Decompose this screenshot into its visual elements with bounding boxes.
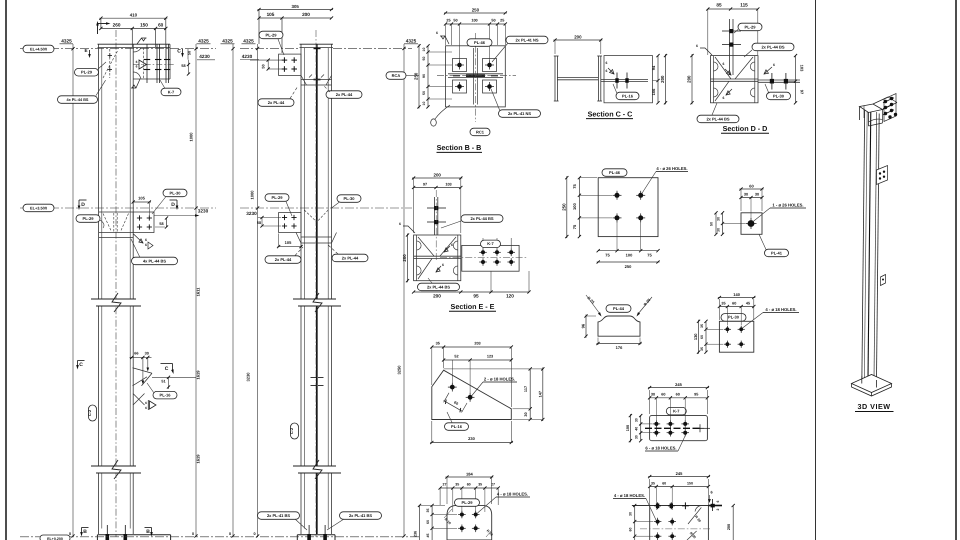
svg-text:60: 60 xyxy=(629,528,633,532)
svg-text:50: 50 xyxy=(262,64,266,68)
svg-text:0: 0 xyxy=(229,532,231,536)
section cut marker B left at base xyxy=(80,528,88,537)
column C-2 elevation 1 shaft xyxy=(99,44,134,534)
svg-text:3230: 3230 xyxy=(198,209,209,214)
label 4230 left of column 2 top xyxy=(240,54,259,60)
svg-text:97: 97 xyxy=(800,90,805,95)
bottom right plate dims 35 60 150 xyxy=(648,479,710,510)
column 2 haunch transition xyxy=(301,75,332,86)
label 4325 right of column 1 xyxy=(197,38,211,43)
svg-text:200: 200 xyxy=(574,35,582,40)
section B-B column cross-section xyxy=(446,46,506,107)
plate PL-16 detail shape xyxy=(432,370,512,419)
label PL-30 section D-D xyxy=(765,84,791,100)
svg-text:PL-16: PL-16 xyxy=(622,93,634,98)
svg-text:25: 25 xyxy=(500,19,504,23)
label PL-44 detail xyxy=(606,305,631,313)
svg-text:PL-46: PL-46 xyxy=(609,170,621,175)
svg-text:200: 200 xyxy=(402,254,407,262)
plate PL-30 dims 35 60 45 xyxy=(718,299,756,325)
note 4 - dia 18 holes bottom left xyxy=(478,492,531,514)
svg-text:6: 6 xyxy=(723,62,725,66)
section E-E channel box xyxy=(414,235,461,281)
svg-text:PL-29: PL-29 xyxy=(745,24,757,29)
svg-text:100: 100 xyxy=(626,425,630,431)
svg-text:PL-41: PL-41 xyxy=(771,250,783,255)
plate PL-29 bottom detail bolts xyxy=(458,511,479,532)
column 2 cap bolt cross xyxy=(314,45,321,53)
plate PL-46 detail xyxy=(598,178,658,237)
bottom right dimension 200 xyxy=(710,504,735,540)
plate PL-41 top dimension 60 xyxy=(739,184,763,212)
section E-E title xyxy=(449,302,496,311)
bottom right centerline dashed xyxy=(640,528,712,530)
svg-text:123: 123 xyxy=(487,355,493,359)
label PL-46 section B-B xyxy=(467,39,492,47)
label 4325 left of column 1 xyxy=(60,38,74,43)
label PL-29 at column 2 mid xyxy=(265,194,292,216)
svg-text:0: 0 xyxy=(253,532,255,536)
bottom right chamfer R 30 notes xyxy=(687,505,702,540)
svg-text:150: 150 xyxy=(140,22,148,27)
svg-text:2x PL-41 NS: 2x PL-41 NS xyxy=(508,111,531,116)
label PL-46 detail xyxy=(602,169,627,177)
svg-text:95: 95 xyxy=(694,393,698,397)
note 1 - dia 26 holes xyxy=(753,203,807,223)
svg-text:96: 96 xyxy=(581,323,586,328)
plate PL-29 dims 27 35 60 35 27 xyxy=(439,477,500,512)
svg-text:60: 60 xyxy=(749,184,754,189)
svg-text:90: 90 xyxy=(422,74,426,78)
plate PL-30 overall left dimension 130 xyxy=(693,320,700,354)
svg-text:K-7: K-7 xyxy=(168,89,175,94)
section E-E weld flags xyxy=(399,222,453,272)
svg-text:2x PL-41 NS: 2x PL-41 NS xyxy=(515,37,538,42)
section B-B top dimensions 25 50 100 50 25 xyxy=(444,19,507,62)
svg-text:30: 30 xyxy=(524,412,528,416)
column 1 top cap plate xyxy=(98,44,171,47)
svg-text:100: 100 xyxy=(572,202,577,209)
svg-text:Section B - B: Section B - B xyxy=(437,143,482,152)
svg-text:117: 117 xyxy=(524,386,528,392)
section cut marker D left of column 1 xyxy=(78,200,87,210)
bottom right plate bolts row on edge xyxy=(654,502,689,509)
svg-text:D: D xyxy=(81,202,85,208)
svg-text:6: 6 xyxy=(606,69,608,73)
section E-E bottom dimensions 200 95 120 xyxy=(412,271,531,299)
section C-C gusset box xyxy=(601,56,653,103)
svg-text:6: 6 xyxy=(145,406,147,410)
column 2 mid connection level line xyxy=(240,207,412,209)
column 1 break symbol upper xyxy=(91,293,141,312)
section B-B centerlines xyxy=(437,33,516,122)
section cut marker C at column 1 top xyxy=(177,49,184,58)
label RCA xyxy=(386,72,419,80)
svg-text:PL-16: PL-16 xyxy=(160,393,172,398)
dimensions 105 200 above column 2 xyxy=(257,12,333,53)
weld symbol below column 1 bracket xyxy=(131,79,140,88)
column 2 haunch bolt cross xyxy=(314,76,321,84)
label 2x PL-44 left at column 2 mid xyxy=(265,247,303,263)
svg-text:103: 103 xyxy=(445,183,451,187)
label 4325 left of column 2 top xyxy=(242,38,256,43)
dimension chain 1000 left of column 2 xyxy=(246,44,260,538)
svg-text:6: 6 xyxy=(136,65,138,69)
plate PL-46 overall left dimension 250 xyxy=(561,176,568,238)
svg-text:35: 35 xyxy=(426,509,430,513)
svg-text:4 - ø 18 HOLES.: 4 - ø 18 HOLES. xyxy=(497,492,528,497)
svg-text:1619: 1619 xyxy=(196,454,201,464)
svg-text:1000: 1000 xyxy=(250,190,255,200)
svg-text:4325: 4325 xyxy=(61,38,72,43)
column 2 mid haunch xyxy=(296,210,337,243)
svg-text:RCA: RCA xyxy=(392,73,401,78)
plate PL-30 detail xyxy=(719,321,753,352)
svg-text:Section D - D: Section D - D xyxy=(723,124,768,133)
svg-text:6: 6 xyxy=(145,238,147,242)
label PL-29 at column 1 top xyxy=(75,62,107,76)
section B-B overall left dimension 250 xyxy=(414,44,421,108)
svg-text:4 - ø 18 HOLES.: 4 - ø 18 HOLES. xyxy=(614,493,645,498)
section B-B corner angle plates xyxy=(453,59,497,94)
svg-text:51: 51 xyxy=(161,380,165,384)
section E-E vertical plate with bolts xyxy=(427,190,446,262)
section cut marker C right mid column 1 xyxy=(161,364,174,375)
label 2x PL-44 BS section E-E bottom xyxy=(418,278,460,291)
level label EL+4.500 xyxy=(23,45,54,53)
svg-text:PL-29: PL-29 xyxy=(272,195,284,200)
svg-text:50: 50 xyxy=(710,222,714,226)
section B-B left dimension chain xyxy=(422,44,452,108)
svg-text:35: 35 xyxy=(455,483,459,487)
dimension 66 30 at column 1 gusset xyxy=(130,352,152,385)
svg-text:60: 60 xyxy=(661,393,665,397)
section C-C right overall dimension 200 xyxy=(660,54,667,104)
plate PL-30 left dimension chain xyxy=(700,320,723,354)
svg-text:1000: 1000 xyxy=(189,132,194,142)
label PL-16 section C-C xyxy=(613,84,639,100)
svg-text:PL-29: PL-29 xyxy=(266,32,278,37)
label PL-29 bottom detail xyxy=(455,499,480,507)
svg-text:60: 60 xyxy=(732,302,736,306)
dimension chain left of column 1 xyxy=(71,44,74,538)
plate PL-16 right dimensions 117 30 xyxy=(444,367,543,421)
section D-D weld flags xyxy=(696,44,775,100)
label 3230 left of column 2 mid xyxy=(246,211,281,228)
svg-text:200: 200 xyxy=(660,75,665,83)
3D view top open box xyxy=(860,104,883,126)
svg-text:2x PL-41 BS: 2x PL-41 BS xyxy=(267,513,290,518)
3D view base plate xyxy=(852,375,892,397)
svg-text:2 - ø 18 HOLES.: 2 - ø 18 HOLES. xyxy=(484,376,515,381)
label 2x PL-41 BS left at column 2 base xyxy=(258,512,308,530)
label 4230 right of column 1 xyxy=(197,54,215,60)
label 2x PL-44 BS section D-D bottom xyxy=(697,103,739,123)
plate PL-46 bolt holes xyxy=(613,191,646,223)
column 1 gusset plate xyxy=(133,368,153,405)
plate PL-46 bottom dimension chain xyxy=(597,222,660,258)
datum north arrow xyxy=(96,21,110,34)
bottom right left dimension chain xyxy=(629,504,653,540)
svg-text:230: 230 xyxy=(468,436,475,441)
small dim 58 at column 1 mid xyxy=(155,216,168,228)
svg-text:4230: 4230 xyxy=(242,54,253,59)
grid level line EL+3.500 xyxy=(20,207,216,209)
plate PL-44 left dimension 96 xyxy=(581,314,597,337)
svg-text:1611: 1611 xyxy=(196,287,201,296)
svg-text:115: 115 xyxy=(740,3,748,8)
plate PL-29 bottom detail shape xyxy=(447,505,492,540)
svg-text:6 - ø 18 HOLES.: 6 - ø 18 HOLES. xyxy=(645,446,676,451)
section cut marker C left mid column 1 xyxy=(76,361,84,370)
label 2x PL-44 BS section D-D top xyxy=(744,43,794,57)
svg-text:2x PL-44: 2x PL-44 xyxy=(275,257,292,262)
section C-C bolts on plate xyxy=(615,73,628,89)
svg-text:4x PL-44 BS: 4x PL-44 BS xyxy=(143,258,166,263)
dimension 105 below column 2 mid bracket xyxy=(277,234,303,249)
svg-text:PL-29: PL-29 xyxy=(462,500,474,505)
svg-text:305: 305 xyxy=(292,4,300,9)
dimension chain 4325 right of column 2 xyxy=(397,38,419,537)
svg-text:184: 184 xyxy=(466,472,473,477)
svg-text:1 - ø 26 HOLES.: 1 - ø 26 HOLES. xyxy=(772,203,803,208)
svg-text:4 - ø 18 HOLES.: 4 - ø 18 HOLES. xyxy=(765,307,796,312)
svg-text:30: 30 xyxy=(755,193,759,197)
svg-text:66: 66 xyxy=(134,352,138,356)
svg-text:250: 250 xyxy=(472,8,480,13)
svg-text:6: 6 xyxy=(399,222,401,226)
label 2x PL-44 left below column 2 haunch xyxy=(258,86,298,106)
svg-text:245: 245 xyxy=(676,471,683,476)
column 2 top left bracket with bolts xyxy=(250,54,301,75)
section D-D channel section xyxy=(711,56,759,103)
column 1 top plate PL-29 hidden lines xyxy=(103,49,118,78)
weld symbols below column 1 mid bracket xyxy=(134,234,154,249)
svg-text:60: 60 xyxy=(158,22,164,27)
note R 10 corner radius right xyxy=(486,529,494,537)
plate K-7 left dimension chain xyxy=(635,414,652,442)
svg-text:260: 260 xyxy=(113,22,121,27)
plate PL-30 top dimension 140 xyxy=(718,292,756,299)
svg-text:60: 60 xyxy=(676,393,680,397)
svg-text:75: 75 xyxy=(572,224,577,229)
section E-E top dimension 200 xyxy=(412,173,462,180)
svg-text:35: 35 xyxy=(700,347,704,351)
svg-text:35: 35 xyxy=(436,342,440,346)
svg-text:1619: 1619 xyxy=(196,370,201,380)
column 2 centerline xyxy=(315,30,317,537)
label 4x PL-44 BS at column 1 mid xyxy=(131,239,178,265)
svg-text:6: 6 xyxy=(710,491,712,495)
svg-text:2x PL-41 BS: 2x PL-41 BS xyxy=(349,513,372,518)
section E-E dimensions 97 103 xyxy=(412,178,462,233)
section D-D title xyxy=(721,124,769,133)
plate PL-29 bottom left dimension chain xyxy=(426,504,457,540)
svg-text:4 - ø 26 HOLES.: 4 - ø 26 HOLES. xyxy=(656,166,687,171)
section cut marker D right of column 1 xyxy=(170,200,179,210)
svg-text:B: B xyxy=(83,529,87,535)
svg-text:3D VIEW: 3D VIEW xyxy=(857,402,890,411)
svg-text:10: 10 xyxy=(422,102,426,106)
svg-text:30: 30 xyxy=(629,512,633,516)
svg-text:25: 25 xyxy=(446,19,450,23)
svg-text:PL-44: PL-44 xyxy=(613,306,625,311)
svg-text:2x PL-44 BS: 2x PL-44 BS xyxy=(706,116,729,121)
section C-C title xyxy=(586,110,633,119)
note 4 - dia 26 holes xyxy=(642,166,689,194)
svg-text:30: 30 xyxy=(717,217,721,221)
svg-text:C-2: C-2 xyxy=(87,409,92,416)
level label EL+3.500 xyxy=(23,204,54,212)
plate PL-41 left dims 50 30 xyxy=(710,211,746,236)
svg-text:50: 50 xyxy=(422,57,426,61)
label PL-41 detail xyxy=(759,234,789,256)
small dims 50 58 right of column 1 top xyxy=(181,49,191,76)
svg-text:2x PL-44: 2x PL-44 xyxy=(342,255,359,260)
plate K-7 bolt holes xyxy=(653,420,689,436)
drawing sheet left border xyxy=(5,0,7,540)
plate PL-16 bolt holes xyxy=(448,383,475,402)
label PL-30 detail xyxy=(721,314,746,322)
svg-text:3230: 3230 xyxy=(246,211,257,216)
svg-text:3230: 3230 xyxy=(246,372,251,382)
svg-text:58: 58 xyxy=(181,64,185,68)
label PL-29 at column 1 mid xyxy=(76,215,104,228)
column 1 centerline xyxy=(115,30,117,537)
dimension 51 at gusset xyxy=(161,376,170,389)
section C-C H-beam xyxy=(554,56,602,101)
section C-C right dimensions 94 106 xyxy=(602,54,660,104)
svg-text:6: 6 xyxy=(606,61,608,65)
column 2 base plate and anchor bolts xyxy=(297,525,335,540)
svg-text:200: 200 xyxy=(433,294,441,299)
label 2x PL-41 NS top xyxy=(492,36,548,62)
plate PL-16 hole spacing dimension 60 xyxy=(444,393,467,413)
dimension chain 1000 right of column 1 xyxy=(189,44,201,538)
svg-text:200: 200 xyxy=(434,173,442,178)
plate PL-29 bottom overall dimension 236 xyxy=(414,504,446,540)
level label at base cut xyxy=(40,535,70,540)
svg-text:85: 85 xyxy=(716,3,722,8)
grid level line EL+4.500 xyxy=(20,48,216,50)
svg-text:4x PL-44 BS: 4x PL-44 BS xyxy=(67,98,89,102)
column 2 top cap plate xyxy=(240,44,412,48)
dimensions 260 150 60 above column 1 xyxy=(99,22,167,47)
svg-text:250: 250 xyxy=(561,203,566,211)
column 1 mid bracket plate with bolts xyxy=(133,212,154,233)
svg-text:100: 100 xyxy=(626,253,633,258)
svg-text:60: 60 xyxy=(426,520,430,524)
svg-text:K-7: K-7 xyxy=(487,241,494,246)
svg-text:3250: 3250 xyxy=(397,365,402,375)
svg-text:6: 6 xyxy=(451,243,453,247)
svg-text:200: 200 xyxy=(727,524,731,530)
svg-text:45: 45 xyxy=(746,302,750,306)
svg-text:35: 35 xyxy=(700,324,704,328)
svg-text:50: 50 xyxy=(491,19,495,23)
section B-B title xyxy=(437,143,483,152)
svg-text:103: 103 xyxy=(800,65,805,72)
section E-E centerline xyxy=(440,256,528,258)
svg-text:203: 203 xyxy=(474,342,480,346)
column 1 mark label C-2 xyxy=(87,405,97,421)
svg-text:140: 140 xyxy=(733,292,740,297)
svg-text:250: 250 xyxy=(625,264,632,269)
svg-text:PL-30: PL-30 xyxy=(773,93,785,98)
svg-text:27: 27 xyxy=(443,483,447,487)
dimension 305 above column 2 xyxy=(257,4,333,44)
svg-text:2x PL-44 BS: 2x PL-44 BS xyxy=(427,284,450,289)
svg-text:52: 52 xyxy=(454,355,458,359)
svg-text:30: 30 xyxy=(744,193,748,197)
svg-text:97: 97 xyxy=(423,183,427,187)
svg-text:PL-46: PL-46 xyxy=(474,40,486,45)
bottom right plate bolt holes xyxy=(654,518,676,540)
section D-D vertical plate PL-29 edge xyxy=(722,19,741,75)
svg-text:40: 40 xyxy=(635,427,639,431)
label 2x PL-44 BS section E-E top xyxy=(441,215,503,228)
section cut marker B right at base xyxy=(145,528,153,537)
section C-C top dimension 200 xyxy=(553,35,602,55)
svg-text:PL-16: PL-16 xyxy=(451,424,463,429)
svg-text:EL+3.500: EL+3.500 xyxy=(30,205,47,210)
column 2 web edge heavy line xyxy=(316,48,318,535)
svg-text:2x PL-44 BS: 2x PL-44 BS xyxy=(761,44,784,49)
weld symbol at column 1 top xyxy=(137,38,147,44)
svg-text:6: 6 xyxy=(723,96,725,100)
svg-text:250: 250 xyxy=(414,72,419,80)
svg-text:30: 30 xyxy=(717,228,721,232)
bent tab dimension 6 xyxy=(708,491,720,511)
svg-text:4325: 4325 xyxy=(406,38,417,43)
svg-text:4325: 4325 xyxy=(222,38,233,43)
svg-text:105: 105 xyxy=(138,196,145,201)
svg-text:4325: 4325 xyxy=(198,38,209,43)
svg-text:K-7: K-7 xyxy=(673,409,680,414)
svg-text:6: 6 xyxy=(773,63,775,67)
svg-text:95: 95 xyxy=(473,294,479,299)
column 2 mid bracket with bolts xyxy=(279,213,301,233)
label PL-30 at column 2 mid xyxy=(332,195,362,208)
svg-text:60: 60 xyxy=(700,335,704,339)
section D-D right dimensions 103 97 xyxy=(758,54,805,104)
note 2 - dia 18 holes xyxy=(472,376,518,396)
3D view middle bracket xyxy=(877,166,888,185)
note 4 - dia 18 holes bottom right xyxy=(613,493,656,520)
svg-text:106: 106 xyxy=(651,88,656,95)
marker E at column 1 top left xyxy=(84,48,90,58)
svg-text:C-2: C-2 xyxy=(289,427,294,434)
separator line before 3D view xyxy=(815,0,817,540)
plate PL-41 bolt hole xyxy=(746,218,757,229)
label PL-30 at column 1 mid xyxy=(152,189,187,214)
svg-text:30: 30 xyxy=(651,393,655,397)
plate PL-29 bottom detail top dimension 184 xyxy=(445,472,493,479)
svg-text:75: 75 xyxy=(647,253,652,258)
column 1 base plate and anchor bolts xyxy=(97,525,170,540)
bottom right plate top dimension 245 xyxy=(648,471,710,478)
svg-text:PL-30: PL-30 xyxy=(728,315,740,320)
bottom right bent tab xyxy=(708,499,722,511)
svg-text:100: 100 xyxy=(471,19,477,23)
3D view title xyxy=(855,402,894,412)
svg-text:B: B xyxy=(146,529,150,535)
ground level line at base xyxy=(20,532,420,537)
dimension 105 at column 1 mid bracket xyxy=(132,196,151,217)
svg-text:EL+4.500: EL+4.500 xyxy=(30,46,47,51)
plate K-7 top dimension 245 xyxy=(648,382,709,389)
section E-E right gusset plate xyxy=(462,245,519,271)
